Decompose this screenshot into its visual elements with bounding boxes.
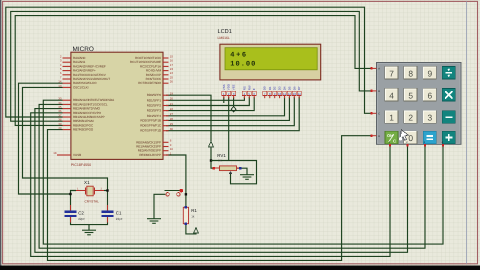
- wire RD4 to LCD D4: [166, 97, 285, 116]
- pin RB2: [63, 108, 71, 110]
- pin RD4: [163, 115, 169, 117]
- svg-text:40: 40: [58, 126, 62, 130]
- pin RA5: [63, 78, 71, 80]
- pin OSC1: [63, 86, 71, 88]
- wire R1 bottom to power arrow: [186, 224, 196, 234]
- svg-text:D4: D4: [283, 86, 287, 90]
- wire RB5 to keypad row B (top middle loop): [11, 11, 372, 121]
- capacitor C1 plates: [102, 211, 114, 213]
- svg-text:7: 7: [389, 68, 394, 78]
- crystal pin 2 stub: [95, 190, 104, 192]
- svg-text:22: 22: [170, 107, 174, 111]
- svg-text:22pF: 22pF: [116, 217, 123, 221]
- pin RB7: [63, 129, 71, 131]
- svg-text:CRYSTAL: CRYSTAL: [85, 200, 100, 204]
- wire RV1 right terminal to ground: [237, 168, 248, 174]
- node diamond under LCD VEE: [231, 107, 236, 112]
- svg-text:LCD1: LCD1: [218, 29, 232, 35]
- pin RC7: [163, 82, 169, 84]
- pin RB3: [63, 112, 71, 114]
- LCD pin number boxes 1-14: [222, 91, 301, 96]
- svg-text:13: 13: [58, 84, 62, 88]
- keypad panel: [377, 63, 462, 145]
- svg-text:8: 8: [408, 68, 413, 78]
- svg-text:10: 10: [278, 92, 282, 96]
- svg-text:1: 1: [389, 113, 394, 123]
- svg-text:RD0/SPP0: RD0/SPP0: [147, 93, 162, 97]
- svg-text:28: 28: [170, 117, 174, 121]
- pin RC6: [163, 78, 169, 80]
- svg-text:14: 14: [298, 92, 302, 96]
- svg-text:4+6: 4+6: [230, 51, 247, 59]
- svg-text:RW: RW: [247, 85, 251, 90]
- key 4: [385, 89, 398, 102]
- wire LCD VSS stub down: [223, 97, 225, 103]
- wire RD0 to RV1 feed: [166, 95, 211, 141]
- svg-text:3: 3: [427, 113, 432, 123]
- wire LCD VEE down to diamond: [233, 97, 235, 107]
- svg-text:4: 4: [389, 90, 394, 100]
- svg-text:RD7/SPP7/P1D: RD7/SPP7/P1D: [140, 129, 162, 133]
- pin RE2: [163, 150, 169, 152]
- power arrow at R1 bottom: [194, 228, 199, 233]
- wire crystal left leg to C2: [71, 191, 77, 212]
- key 2: [404, 111, 417, 124]
- wire RB3 to keypad column 1: [31, 113, 390, 257]
- wire RB6 to keypad row A (top inner loop): [15, 16, 371, 126]
- key minus: [442, 111, 455, 124]
- pin RE3: [163, 154, 169, 156]
- pin RA0: [63, 57, 71, 59]
- key 6: [423, 89, 436, 102]
- push button: [165, 190, 182, 192]
- pin RD5: [163, 119, 169, 121]
- svg-text:RD1/SPP1: RD1/SPP1: [147, 98, 162, 102]
- svg-text:R1: R1: [191, 208, 197, 213]
- svg-text:RD2/SPP2: RD2/SPP2: [147, 104, 162, 108]
- wire OSC1 to crystal right / C1: [23, 87, 108, 211]
- pin RA4: [63, 74, 71, 76]
- keypad column labels: [389, 141, 444, 144]
- pin RE1: [163, 146, 169, 148]
- svg-text:5: 5: [408, 90, 413, 100]
- wire RD6 to LCD D6: [166, 97, 294, 126]
- svg-text:B: B: [378, 90, 380, 93]
- op-amp n/a : microcontroller U? body PIC18F4550: [71, 52, 163, 159]
- junction button right node: [185, 193, 187, 195]
- pin RB4: [63, 116, 71, 118]
- svg-text:X1: X1: [84, 180, 90, 185]
- wire RD7 to LCD D7: [166, 97, 299, 131]
- crystal X1 body: [87, 186, 93, 196]
- LCD LM016L body: [220, 44, 321, 80]
- svg-text:C1: C1: [116, 211, 122, 216]
- svg-text:0: 0: [408, 133, 413, 143]
- wire RD2 to LCD RW: [166, 97, 249, 106]
- svg-text:D1: D1: [268, 86, 272, 90]
- svg-text:D: D: [378, 135, 380, 138]
- wire RV1 feed arrow stem to pot left: [211, 147, 214, 168]
- svg-text:D6: D6: [292, 86, 296, 90]
- ground at RV1: [240, 175, 254, 180]
- svg-text:LM016L: LM016L: [218, 36, 230, 40]
- svg-text:OSC1/CLKI: OSC1/CLKI: [73, 85, 89, 89]
- key multiply: [442, 89, 455, 102]
- letterbox black bar: [0, 266, 480, 270]
- capacitor C1 stubs: [107, 205, 109, 211]
- RV1 wiper arrow: [229, 171, 233, 174]
- junction crystal right: [106, 189, 108, 191]
- svg-text:19: 19: [170, 92, 174, 96]
- svg-text:11: 11: [283, 92, 286, 96]
- right inner margin line: [466, 1, 468, 263]
- wire RE3 to push button and R1: [166, 155, 186, 207]
- pin numbers left: [53, 54, 62, 155]
- key 1: [385, 111, 398, 124]
- svg-text:RC7/RX/DT/SDO: RC7/RX/DT/SDO: [138, 81, 161, 85]
- svg-text:21: 21: [170, 102, 174, 106]
- junction crystal left: [69, 193, 71, 195]
- svg-text:PIC18F4550: PIC18F4550: [71, 163, 91, 167]
- wire RD3 to LCD E: [166, 97, 254, 111]
- svg-text:22pF: 22pF: [78, 217, 85, 221]
- pin RD0: [163, 94, 169, 96]
- key 7: [385, 67, 398, 80]
- wire RV1 wiper net loop: [211, 161, 257, 184]
- wire LCD VDD down to wiper net: [228, 97, 230, 161]
- svg-text:VDD: VDD: [227, 84, 231, 90]
- svg-text:RS: RS: [242, 86, 246, 90]
- svg-text:VUSB: VUSB: [73, 153, 81, 157]
- svg-text:10.00: 10.00: [230, 61, 256, 69]
- pin RD2: [163, 105, 169, 107]
- mouse cursor: [399, 130, 409, 141]
- key 9: [423, 67, 436, 80]
- components: [53, 46, 173, 167]
- junction RV1 left node: [210, 159, 212, 161]
- wire RD1 to LCD RS: [166, 97, 244, 100]
- pin RD7: [163, 130, 169, 132]
- key 8: [404, 67, 417, 80]
- pin RC5: [163, 74, 169, 76]
- RV1 left terminal: [214, 167, 220, 169]
- LCD screen: [225, 48, 317, 70]
- svg-text:A: A: [378, 68, 380, 71]
- svg-text:29: 29: [170, 122, 174, 126]
- ground under button: [147, 219, 161, 224]
- svg-text:VSS: VSS: [222, 84, 226, 90]
- key ON/C: [385, 131, 398, 144]
- svg-text:RD6/SPP6/P1C: RD6/SPP6/P1C: [140, 124, 162, 128]
- svg-text:RD3/SPP3: RD3/SPP3: [147, 109, 162, 113]
- pin RE0: [163, 141, 169, 143]
- wire C2 bottom to ground rail: [71, 217, 108, 225]
- wire RD5 to LCD D5: [166, 97, 289, 120]
- svg-text:C: C: [393, 139, 396, 144]
- key 5: [404, 89, 417, 102]
- pin RA1: [63, 61, 71, 63]
- wire RB7 to keypad row D (bottom outer loop): [48, 130, 372, 261]
- svg-text:6: 6: [427, 90, 432, 100]
- svg-text:1k: 1k: [191, 214, 195, 218]
- pin name labels right: [130, 56, 162, 157]
- pin name labels left: [73, 56, 115, 157]
- svg-text:5K: 5K: [218, 159, 222, 163]
- pin RB1: [63, 103, 71, 105]
- svg-text:RD4/SPP4: RD4/SPP4: [147, 114, 162, 118]
- svg-text:RD5/SPP5/P1B: RD5/SPP5/P1B: [140, 118, 161, 122]
- svg-text:D7: D7: [297, 86, 301, 90]
- wire ground stem under crystal: [88, 225, 90, 230]
- keypad column pin markers: [389, 144, 444, 146]
- svg-text:C2: C2: [78, 211, 84, 216]
- wire OSC2 to crystal left / C2: [19, 83, 71, 194]
- pin RA3: [63, 70, 71, 72]
- ground under crystal caps: [82, 230, 96, 235]
- keypad row labels: [378, 68, 380, 138]
- pin RC2: [163, 65, 169, 67]
- pin RD1: [163, 99, 169, 101]
- pin VUSB: [57, 154, 71, 156]
- pin RA2: [63, 65, 71, 67]
- RV1 right terminal: [237, 167, 241, 169]
- svg-text:12: 12: [288, 92, 292, 96]
- svg-text:C: C: [378, 112, 380, 115]
- svg-text:RE3/MCLR/VPP: RE3/MCLR/VPP: [139, 153, 161, 157]
- key 3: [423, 111, 436, 124]
- svg-text:D2: D2: [273, 86, 277, 90]
- svg-text:20: 20: [170, 97, 174, 101]
- svg-text:30: 30: [170, 127, 174, 131]
- svg-text:RB7/KBI3/PGD: RB7/KBI3/PGD: [73, 128, 94, 132]
- pin numbers right: [170, 54, 174, 155]
- wire RB0 to keypad column 4: [43, 100, 443, 244]
- pin RC1: [163, 61, 169, 63]
- left dark edge strip: [0, 0, 1, 270]
- key equals: [423, 131, 436, 144]
- pin RC0: [163, 57, 169, 59]
- key 0: [404, 131, 417, 144]
- potentiometer RV1 body: [220, 166, 237, 171]
- svg-text:MICRO: MICRO: [73, 46, 94, 53]
- LCD pin stubs: [224, 96, 299, 98]
- pin OSC2: [63, 82, 71, 84]
- pin RC4: [163, 70, 169, 72]
- wire button left terminal to ground: [154, 194, 165, 218]
- pin RD6: [163, 125, 169, 127]
- svg-text:E: E: [252, 88, 256, 90]
- svg-text:D3: D3: [278, 86, 282, 90]
- pin RD3: [163, 110, 169, 112]
- svg-text:RV1: RV1: [217, 153, 226, 158]
- LCD pin labels (vertical): [222, 84, 301, 90]
- wire RB2 to keypad column 2: [35, 109, 408, 253]
- svg-text:VEE: VEE: [232, 84, 236, 90]
- capacitor C2 plates: [65, 211, 77, 213]
- wire crystal right leg: [104, 190, 108, 192]
- svg-text:2: 2: [408, 113, 413, 123]
- pin RB0: [63, 99, 71, 101]
- keypad row pin markers: [370, 67, 372, 137]
- capacitor C2 stubs: [70, 205, 72, 211]
- svg-text:9: 9: [427, 68, 432, 78]
- crystal pin 1 stub: [76, 190, 85, 192]
- key divide: [442, 67, 455, 80]
- svg-text:26: 26: [170, 80, 174, 84]
- svg-text:D5: D5: [287, 86, 291, 90]
- key plus: [442, 131, 455, 144]
- svg-text:D0: D0: [263, 86, 267, 90]
- svg-text:27: 27: [170, 112, 174, 116]
- wire RB4 to keypad row C (top outer loop): [6, 7, 372, 117]
- svg-text:13: 13: [293, 92, 297, 96]
- svg-text:18: 18: [53, 151, 57, 155]
- keypad row pins A-D: [372, 68, 377, 135]
- pin RB6: [63, 124, 71, 126]
- wire RB1 to keypad column 3: [39, 104, 425, 248]
- keypad column pins 1-4: [390, 144, 443, 146]
- resistor R1: [183, 207, 188, 223]
- power arrow above RV1: [209, 141, 214, 147]
- pin RB5: [63, 120, 71, 122]
